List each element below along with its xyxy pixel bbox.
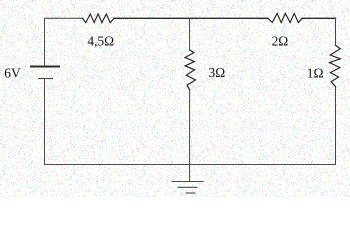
battery V1 6V (30, 67, 60, 79)
svg-text:6V: 6V (4, 66, 21, 81)
wire top-right (R 2Ω to right corner) (302, 17, 336, 19)
wire bottom rail (45, 164, 336, 166)
svg-text:2Ω: 2Ω (272, 33, 289, 48)
svg-text:1Ω: 1Ω (307, 66, 324, 81)
wire middle lower (R 3Ω to ground junction) (189, 90, 191, 182)
wire right lower (R 1Ω to bottom corner) (335, 87, 337, 165)
resistor 3Ω (middle vertical) (185, 50, 196, 90)
resistor 4,5Ω (top left) (83, 14, 115, 23)
wire middle upper (top node down to R 3Ω) (189, 18, 191, 50)
wire left upper (top corner down to battery) (44, 18, 46, 65)
resistor 2Ω (top right) (268, 13, 302, 22)
wire top-middle (R 4,5Ω to R 2Ω, node over 3Ω) (114, 17, 268, 19)
resistor 1Ω (right vertical) (330, 45, 341, 86)
ground (earth symbol below bottom rail) (172, 182, 203, 194)
svg-text:3Ω: 3Ω (209, 65, 226, 80)
wire right upper (corner down to R 1Ω) (335, 18, 337, 45)
wire left lower (battery - down to bottom rail) (44, 79, 46, 165)
svg-text:4,5Ω: 4,5Ω (87, 33, 114, 48)
wire top-left (battery + to R 4,5Ω) (45, 17, 83, 19)
